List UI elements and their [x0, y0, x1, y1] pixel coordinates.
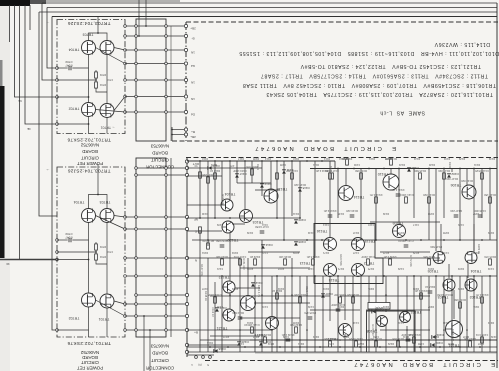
- svg-text:R195: R195: [292, 321, 299, 325]
- svg-text:D108: D108: [298, 240, 306, 244]
- wire: [466, 276, 468, 352]
- diode D114: [261, 245, 265, 248]
- wire: [187, 344, 240, 346]
- diode D102: [447, 174, 451, 177]
- pin: [135, 228, 138, 231]
- wire: [271, 330, 273, 352]
- svg-text:9E: 9E: [18, 99, 22, 103]
- wire: [125, 216, 187, 218]
- svg-text:D114: D114: [265, 243, 272, 247]
- svg-text:R181: R181: [427, 267, 434, 271]
- resistor: [443, 173, 446, 179]
- transistor TR117: [266, 317, 279, 330]
- svg-text:CIRCUIT: CIRCUIT: [81, 156, 99, 161]
- wire: [187, 275, 497, 277]
- svg-text:R217: R217: [252, 335, 259, 339]
- junction: [261, 160, 263, 162]
- wire: [261, 161, 263, 196]
- junction: [420, 239, 422, 241]
- wire: [125, 329, 187, 331]
- wire: [97, 17, 99, 34]
- junction: [337, 168, 339, 170]
- pin: [184, 24, 187, 27]
- resistor: [428, 197, 431, 203]
- main board (lower) outline: [186, 157, 498, 159]
- wire: [398, 169, 400, 225]
- wire: [172, 134, 186, 136]
- junction: [459, 239, 461, 241]
- pin: [184, 34, 187, 37]
- resistor: [390, 159, 393, 165]
- svg-text:R119: R119: [368, 157, 375, 161]
- svg-text:Gd: Gd: [191, 64, 195, 68]
- wire: [88, 55, 90, 103]
- junction: [214, 160, 216, 162]
- svg-text:TR106,118 : 2SC1459B#V TR107: TR106,118 : 2SC1459B#V TR107,109 : 2SA80…: [242, 82, 496, 88]
- resistor: [428, 259, 431, 265]
- pin 3: [209, 356, 212, 359]
- junction: [229, 217, 231, 219]
- svg-text:D102: D102: [443, 157, 450, 161]
- svg-text:→ TR701: → TR701: [101, 126, 116, 130]
- pin: [165, 167, 168, 170]
- transistor TR701: [100, 104, 114, 118]
- svg-text:R160 56K: R160 56K: [339, 254, 343, 266]
- svg-text:R178 240: R178 240: [371, 324, 375, 336]
- junction: [244, 160, 246, 162]
- resistor: [199, 227, 202, 233]
- svg-text:R141 4.7K: R141 4.7K: [475, 293, 488, 297]
- svg-text:R225: R225: [342, 335, 349, 339]
- junction: [229, 294, 231, 296]
- svg-text:R141 4.7K: R141 4.7K: [391, 188, 404, 192]
- junction: [138, 35, 140, 37]
- wire: [114, 48, 125, 51]
- wire: [96, 300, 126, 316]
- pin: [184, 110, 187, 113]
- resistor: [276, 293, 279, 299]
- wire: [248, 251, 300, 253]
- wire: [187, 351, 497, 353]
- resistor: [375, 341, 378, 347]
- junction: [443, 239, 445, 241]
- pin: [165, 275, 168, 278]
- svg-text:C145: C145: [442, 321, 449, 325]
- svg-text:R147: R147: [352, 231, 359, 235]
- wire: [57, 79, 96, 81]
- junction: [435, 275, 437, 277]
- pin: [185, 274, 188, 277]
- wire: [57, 67, 68, 69]
- svg-text:D102: D102: [448, 162, 452, 169]
- svg-text:R155: R155: [442, 231, 449, 235]
- junction: [451, 294, 453, 296]
- pin: [56, 67, 59, 70]
- pin: [185, 314, 188, 317]
- wire: [428, 276, 430, 352]
- wire: [229, 293, 231, 309]
- transistor TR104: [221, 199, 233, 211]
- svg-text:R161: R161: [201, 251, 208, 255]
- svg-text:R103: R103: [210, 163, 217, 167]
- svg-text:C113 47/25: C113 47/25: [475, 169, 489, 173]
- resistor R704: [95, 254, 98, 260]
- svg-text:TR119: TR119: [365, 239, 376, 243]
- wire: [448, 264, 450, 278]
- resistor: [331, 173, 334, 179]
- svg-text:1N: 1N: [191, 97, 195, 101]
- svg-text:0.047: 0.047: [65, 64, 73, 68]
- pin: [124, 25, 127, 28]
- capacitor: [308, 316, 313, 318]
- pin: [124, 62, 127, 65]
- svg-text:R157: R157: [472, 212, 479, 216]
- pin: [135, 315, 138, 318]
- pin: [165, 111, 168, 114]
- pin: [124, 79, 127, 82]
- wire: [29, 5, 31, 30]
- wire: [187, 230, 222, 232]
- wire: [114, 97, 125, 111]
- wire: [473, 169, 475, 252]
- svg-text:47K: 47K: [229, 164, 234, 168]
- wire: [496, 3, 498, 368]
- svg-text:TR703,704:2SJ26: TR703,704:2SJ26: [67, 169, 110, 174]
- wire: [254, 276, 256, 352]
- capacitor: [454, 214, 459, 216]
- wire: [214, 282, 216, 352]
- svg-text:R125 56K: R125 56K: [259, 333, 271, 337]
- svg-text:R201: R201: [367, 287, 374, 291]
- svg-text:CONNECTOR: CONNECTOR: [146, 165, 174, 170]
- wire: [106, 55, 108, 104]
- svg-text:R116: R116: [338, 157, 345, 161]
- pin: [135, 79, 138, 82]
- wire: [210, 335, 260, 337]
- svg-text:R147 33K: R147 33K: [324, 337, 336, 341]
- svg-text:R211: R211: [472, 305, 479, 309]
- diode D112: [251, 283, 255, 286]
- svg-text:R189 2K: R189 2K: [477, 244, 481, 254]
- junction: [283, 239, 285, 241]
- diode D104: [431, 343, 434, 347]
- wire: [199, 161, 201, 218]
- wire: [366, 309, 430, 311]
- power FET board NA06752 upper outline: [57, 20, 125, 134]
- svg-text:R144 8.2K: R144 8.2K: [306, 255, 319, 259]
- pin: [135, 167, 138, 170]
- svg-text:TR121,123 : 2SC1452 TO-5B#V: TR121,123 : 2SC1452 TO-5B#V TR122,124 : …: [300, 63, 481, 69]
- svg-text:R127 22K: R127 22K: [450, 209, 462, 213]
- svg-text:R107 100: R107 100: [221, 194, 225, 206]
- wire: [406, 326, 408, 352]
- pin: [184, 48, 187, 51]
- svg-text:TR702: TR702: [69, 316, 80, 320]
- svg-text:C106: C106: [353, 163, 360, 167]
- pin: [185, 173, 188, 176]
- wire: [125, 275, 187, 277]
- svg-text:POWER FET: POWER FET: [77, 161, 103, 166]
- wire: [459, 169, 461, 241]
- pin: [124, 216, 127, 219]
- svg-text:CIRCUIT: CIRCUIT: [81, 360, 99, 365]
- wire: [136, 174, 187, 176]
- pin: [165, 49, 168, 52]
- wire: [125, 111, 186, 113]
- svg-text:C139: C139: [307, 305, 314, 309]
- svg-text:TR122: TR122: [219, 275, 230, 279]
- svg-text:R136 100: R136 100: [279, 255, 291, 259]
- svg-text:R152 680: R152 680: [216, 239, 228, 243]
- junction: [443, 168, 445, 170]
- wire: [306, 276, 308, 352]
- diode D113: [260, 184, 264, 187]
- svg-text:TR118: TR118: [277, 187, 288, 191]
- svg-text:D103 x: D103 x: [329, 166, 333, 175]
- svg-text:R118 1K: R118 1K: [425, 285, 435, 289]
- svg-text:N: N: [195, 259, 197, 263]
- junction: [383, 168, 385, 170]
- resistor: [489, 259, 492, 265]
- wire: [207, 161, 209, 246]
- pin: [165, 25, 168, 28]
- wire: [413, 169, 415, 219]
- svg-text:R124: R124: [413, 157, 420, 161]
- svg-text:R704: R704: [99, 83, 106, 87]
- resistor: [214, 297, 217, 303]
- junction: [299, 339, 301, 341]
- wire: [271, 276, 273, 316]
- junction: [209, 346, 211, 348]
- svg-text:TR114: TR114: [354, 195, 365, 199]
- pin: [184, 128, 187, 131]
- svg-text:D114,115 : WV236V: D114,115 : WV236V: [434, 41, 490, 47]
- resistor: [339, 297, 342, 303]
- junction: [413, 275, 415, 277]
- wire - bottom rail 2: [250, 339, 497, 341]
- svg-text:C105 0.01: C105 0.01: [475, 333, 488, 337]
- svg-text:R190 0.22: R190 0.22: [451, 329, 455, 342]
- svg-text:CIRCUIT: CIRCUIT: [151, 158, 169, 163]
- junction: [368, 168, 370, 170]
- svg-text:R134 2.2K: R134 2.2K: [323, 209, 336, 213]
- junction: [276, 160, 278, 162]
- transistor TR120: [222, 221, 234, 233]
- svg-text:C703: C703: [65, 232, 72, 236]
- resistor: [264, 337, 267, 343]
- transistor TR114: [339, 186, 354, 201]
- wire: [314, 276, 316, 352]
- junction: [385, 294, 387, 296]
- resistor: [199, 172, 202, 178]
- junction: [261, 339, 263, 341]
- junction: [319, 346, 321, 348]
- junction: [489, 168, 491, 170]
- junction: [339, 339, 341, 341]
- svg-text:E CIRCUIT BOARD NA06747: E CIRCUIT BOARD NA06747: [253, 145, 396, 151]
- wire: [337, 169, 339, 219]
- wire: [207, 258, 209, 352]
- svg-text:R151 330: R151 330: [242, 258, 246, 270]
- svg-text:0.047: 0.047: [65, 236, 73, 240]
- wire: [187, 204, 221, 206]
- resistor R703: [95, 244, 98, 250]
- wire: [19, 5, 21, 260]
- svg-text:B+: B+: [194, 331, 198, 335]
- junction: [375, 239, 377, 241]
- transistor TR119: [352, 238, 365, 251]
- svg-text:R215: R215: [222, 335, 229, 339]
- wire: [466, 169, 468, 186]
- svg-text:C127: C127: [352, 251, 359, 255]
- pin: [184, 62, 187, 65]
- svg-text:C108 30P: C108 30P: [286, 169, 298, 173]
- junction: [291, 160, 293, 162]
- wire - bottom rail: [187, 346, 497, 348]
- svg-text:C103 100P: C103 100P: [233, 169, 247, 173]
- svg-text:R149 1.2K: R149 1.2K: [383, 255, 396, 259]
- resistor: [251, 327, 254, 333]
- wire: [125, 315, 187, 317]
- svg-text:TR703: TR703: [100, 200, 111, 204]
- svg-text:C113: C113: [322, 223, 329, 227]
- svg-text:R149: R149: [382, 212, 389, 216]
- capacitor C703: [68, 66, 70, 71]
- wire: [345, 169, 347, 186]
- svg-text:C111 220P: C111 220P: [361, 255, 374, 259]
- wire: [314, 161, 316, 258]
- svg-text:R179: R179: [412, 251, 419, 255]
- wire: [385, 324, 387, 352]
- pin 2: [202, 356, 205, 359]
- svg-text:C129: C129: [397, 267, 404, 271]
- resistor: [389, 259, 392, 265]
- svg-text:R171: R171: [322, 251, 329, 255]
- diode D109: [294, 220, 298, 223]
- svg-text:D110: D110: [201, 157, 208, 161]
- capacitor: [238, 316, 243, 318]
- svg-text:TR113: TR113: [300, 261, 311, 265]
- resistor: [481, 297, 484, 303]
- wire: [136, 294, 187, 296]
- pin: [135, 25, 138, 28]
- svg-text:R189: R189: [231, 287, 238, 291]
- svg-text:C119 10: C119 10: [211, 307, 215, 317]
- resistor: [355, 341, 358, 347]
- wire: [276, 161, 278, 218]
- svg-text:C137: C137: [261, 305, 268, 309]
- svg-text:R127 22K: R127 22K: [294, 293, 306, 297]
- svg-text:39: 39: [6, 262, 10, 266]
- junction: [214, 217, 216, 219]
- diode D111: [282, 170, 286, 173]
- wire: [451, 276, 453, 352]
- svg-text:POWER FET: POWER FET: [77, 366, 103, 371]
- svg-text:R113 68K: R113 68K: [232, 311, 244, 315]
- wire: [125, 49, 186, 51]
- svg-text:SAME AS L-ch: SAME AS L-ch: [380, 110, 425, 116]
- wire: [329, 161, 331, 237]
- transistor TR112: [352, 264, 365, 277]
- svg-text:R131: R131: [473, 163, 480, 167]
- wire: [420, 276, 422, 352]
- svg-text:R125 56K: R125 56K: [430, 245, 442, 249]
- pin: [124, 329, 127, 332]
- resistor: [251, 169, 254, 175]
- resistor: [284, 259, 287, 265]
- svg-text:D102: D102: [451, 172, 459, 176]
- wire: [221, 276, 223, 352]
- wire: [283, 161, 285, 240]
- pin: [135, 111, 138, 114]
- pin: [135, 35, 138, 38]
- wire: [276, 276, 278, 352]
- svg-text:D113: D113: [264, 157, 271, 161]
- resistor: [469, 341, 472, 347]
- svg-text:R143: R143: [307, 231, 314, 235]
- diode D110: [208, 166, 211, 170]
- diode D121: [259, 342, 263, 345]
- resistor: [443, 297, 446, 303]
- diode D117: [235, 174, 239, 177]
- wire: [187, 167, 262, 169]
- junction: [239, 329, 241, 331]
- resistor: [329, 173, 332, 179]
- svg-text:B-: B-: [191, 37, 194, 41]
- svg-text:R163: R163: [231, 251, 238, 255]
- svg-text:TR109: TR109: [393, 221, 404, 225]
- resistor: [207, 243, 210, 249]
- wire: [360, 169, 362, 241]
- wire: [261, 240, 263, 352]
- wire: [143, 316, 145, 371]
- wire: [481, 276, 483, 352]
- capacitor: [220, 244, 225, 246]
- transistor TR103: [240, 210, 253, 223]
- wire: [237, 182, 271, 184]
- resistor R704: [95, 82, 98, 88]
- wire: [337, 276, 339, 352]
- svg-text:CIRCUIT: CIRCUIT: [151, 358, 169, 363]
- wire: [329, 277, 331, 321]
- junction: [352, 294, 354, 296]
- wire: [89, 33, 108, 41]
- wire: [47, 7, 497, 9]
- wire: [114, 216, 125, 218]
- pin: [124, 257, 127, 260]
- svg-text:TR701: TR701: [99, 317, 110, 321]
- pin: [165, 228, 168, 231]
- module outline 2: [367, 311, 416, 352]
- svg-text:C143: C143: [397, 321, 404, 325]
- wire: [481, 169, 483, 219]
- wire: [52, 16, 497, 18]
- pin: [184, 133, 187, 136]
- junction: [306, 160, 308, 162]
- wire: [473, 224, 475, 252]
- wire: [96, 48, 126, 64]
- junction: [398, 168, 400, 170]
- junction: [321, 239, 323, 241]
- junction: [353, 239, 355, 241]
- resistor: [489, 197, 492, 203]
- resistor: [459, 302, 462, 308]
- svg-text:B+: B+: [191, 130, 195, 134]
- svg-text:R123 390: R123 390: [216, 255, 228, 259]
- svg-text:R165: R165: [246, 267, 253, 271]
- power FET board NA06752 lower outline: [57, 167, 125, 337]
- wire: [340, 295, 430, 297]
